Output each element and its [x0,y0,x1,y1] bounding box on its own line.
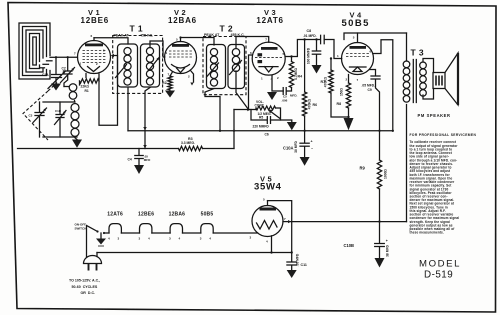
svg-text:R8: R8 [337,102,342,106]
svg-text:SWITCH: SWITCH [75,227,87,231]
resistor R7 470K (V4 grid) [321,57,349,117]
tube V4 50B5 [337,10,374,82]
wire: V4 plate to T3 [344,33,407,40]
oscillator coil (feedback winding) [64,84,77,102]
oscillator coil (tank winding) [43,102,82,148]
svg-text:470KΩ: 470KΩ [307,98,311,109]
svg-text:PEAK AT: PEAK AT [114,34,130,38]
wire: T2 secondary bottom to volume control [236,71,249,110]
svg-text:+: + [311,140,313,144]
svg-text:C2: C2 [62,67,66,71]
svg-text:1000Ω: 1000Ω [384,169,388,179]
tube V1 12BE6 [74,8,111,74]
node: antenna junction [55,56,57,58]
svg-text:12BE6: 12BE6 [138,212,154,218]
tube V5 35W4 rectifier [250,175,287,244]
svg-text:C3: C3 [29,114,33,118]
svg-text:C6: C6 [265,133,269,137]
heater 50B5 [200,212,214,241]
svg-text:35W4: 35W4 [254,182,282,193]
svg-text:.01 MFD.: .01 MFD. [303,34,317,38]
svg-text:30 MFD: 30 MFD [294,141,298,153]
loop antenna L1 [19,23,56,79]
svg-text:T 1: T 1 [130,24,143,34]
heater 12AT6 [107,212,123,241]
heater 12BE6 [138,212,154,241]
svg-text:T 3: T 3 [411,48,424,58]
wire: volume control to AVC bus [233,110,235,149]
capacitor C7 220MMFD [251,110,297,131]
capacitor C2 (osc trimmer) [61,56,75,86]
wire: T2 primary bottom to B+ bus [205,89,221,133]
svg-text:C10A: C10A [283,146,294,151]
svg-text:+: + [386,239,388,243]
svg-text:R1: R1 [85,89,89,93]
wire: V3 diode pin 6 down to volume control [249,55,253,110]
svg-text:12BA6: 12BA6 [169,212,186,218]
AC plug [84,226,102,271]
IF transformer T1 [113,24,163,94]
resistor R3 3.3MEG [179,137,203,151]
svg-text:MODEL: MODEL [419,259,461,270]
svg-text:C1B: C1B [55,109,62,113]
svg-text:PM SPEAKER: PM SPEAKER [418,113,451,118]
output transformer T3 [403,48,426,103]
svg-text:R4: R4 [298,75,303,79]
resistor R9 (filter) [360,130,388,222]
svg-text:50B5: 50B5 [342,18,370,29]
svg-text:MFD: MFD [144,158,151,162]
speaker cone [445,53,458,105]
wire: T1 secondary top to V2 grid [150,41,165,57]
svg-text:50B5: 50B5 [201,212,214,218]
svg-text:12AT6: 12AT6 [256,16,283,25]
svg-text:D-519: D-519 [424,270,453,281]
svg-text:12BE6: 12BE6 [81,16,109,25]
svg-text:R5: R5 [259,116,263,120]
capacitor C3 (osc tuning) [29,102,47,137]
capacitor C1A (tuning gang section) [42,57,66,90]
svg-text:.05 MFD: .05 MFD [296,253,300,266]
svg-text:.006: .006 [282,99,288,103]
wire: antenna to V1 grid [56,56,78,58]
svg-text:C8: C8 [307,29,312,33]
tube V2 12BA6 [165,8,197,79]
svg-text:TO 105-125V. A.C.,: TO 105-125V. A.C., [69,279,100,283]
capacitor C8 .01MFD [303,29,342,59]
capacitor C1B (padder) [55,102,67,137]
svg-text:R6: R6 [313,103,318,107]
svg-text:12BA6: 12BA6 [168,16,197,25]
resistor R8 150ohm (V4 cathode) [337,75,354,131]
svg-text:220 MMFD: 220 MMFD [253,125,270,129]
heater chain wire [104,232,109,234]
wire: T1 primary bottom to B+ bus [127,88,129,131]
svg-text:22KΩ: 22KΩ [81,85,90,89]
wire: V3 pin5 / plate to coupling network [285,40,320,58]
svg-text:−: − [387,253,389,257]
wire: V2 plate to T2 primary [181,38,215,46]
on-off switch [75,223,106,235]
AC line wire [97,252,292,254]
wire: V1 grid return with arrow [99,54,118,125]
wire: T1 secondary bottom to AVC bus [143,88,150,149]
svg-text:C10B: C10B [344,243,355,248]
wire: V1 plate to T1 primary [94,38,128,44]
speaker voice coil [423,59,445,100]
heater 12BA6 [169,212,186,241]
chassis ground at switch [96,233,106,246]
capacitor C10A 30MFD electrolytic [283,130,313,166]
capacitor C5 .006 and V3 cathode ground [267,75,297,102]
wire: V5 plate loop to AC line [268,201,292,253]
svg-text:C9: C9 [368,88,372,92]
wire: T2 secondary top to V3 [236,37,269,49]
svg-text:MFD.: MFD. [290,94,297,98]
volume control R5 1/2 MEG [234,100,281,120]
B+ line from rectifier [292,221,407,223]
wire: V4 screen to B+ [374,40,393,131]
svg-text:CONT.: CONT. [255,104,265,108]
resistor R6 470K (V3 plate load) [302,38,317,131]
AVC bus right [203,148,235,150]
svg-text:12AT6: 12AT6 [107,212,123,218]
svg-text:3.3 MEG.: 3.3 MEG. [181,141,195,145]
resistor R4 4.7MEG [289,57,302,88]
tube V3 12AT6 [250,8,285,81]
svg-text:FOR PROFESSIONAL SERVICEMEN: FOR PROFESSIONAL SERVICEMEN [410,133,477,137]
service note text block [410,133,477,235]
IF transformer T2 [203,24,246,95]
svg-text:C11: C11 [301,263,307,267]
svg-text:470KΩ: 470KΩ [324,76,328,87]
svg-text:150Ω: 150Ω [340,88,344,97]
svg-text:R9: R9 [360,166,366,171]
label AC supply [69,279,100,296]
wire: T3 primary top from V4 plate [406,33,408,61]
wire: T3 primary bottom to B+ [406,105,408,222]
svg-text:OR D.C.: OR D.C. [81,291,96,295]
svg-text:R2: R2 [162,81,167,85]
resistor R2 (V2 cathode) [162,72,175,98]
resistor R1 22K [80,74,100,94]
svg-text:C1A: C1A [42,73,49,77]
wire: V2 screen stub with arrow [190,71,193,86]
wire: V5 cathode output [283,220,292,223]
svg-text:100 MMFD: 100 MMFD [307,47,311,64]
capacitor C10B 30MFD electrolytic [344,220,390,267]
svg-text:these measurements.: these measurements. [410,231,444,235]
wire: V5 pin4 to AC line [270,236,293,254]
svg-text:50-60 CYCLES: 50-60 CYCLES [72,285,98,289]
svg-text:C4: C4 [128,158,132,162]
B+ bus (filtered) [128,130,393,132]
capacitor 100 MMFD to ground [307,38,322,73]
capacitor C4 (AVC bypass) [128,149,152,175]
capacitor C9 .05MFD [362,70,381,131]
node: B+ bus / screen junction [392,130,394,132]
dashed tuning-gang outline [23,91,48,140]
capacitor C11 .05MFD [287,253,307,279]
svg-text:PEAK AT: PEAK AT [204,33,220,37]
AVC bus [18,148,179,150]
svg-text:−: − [311,147,313,151]
